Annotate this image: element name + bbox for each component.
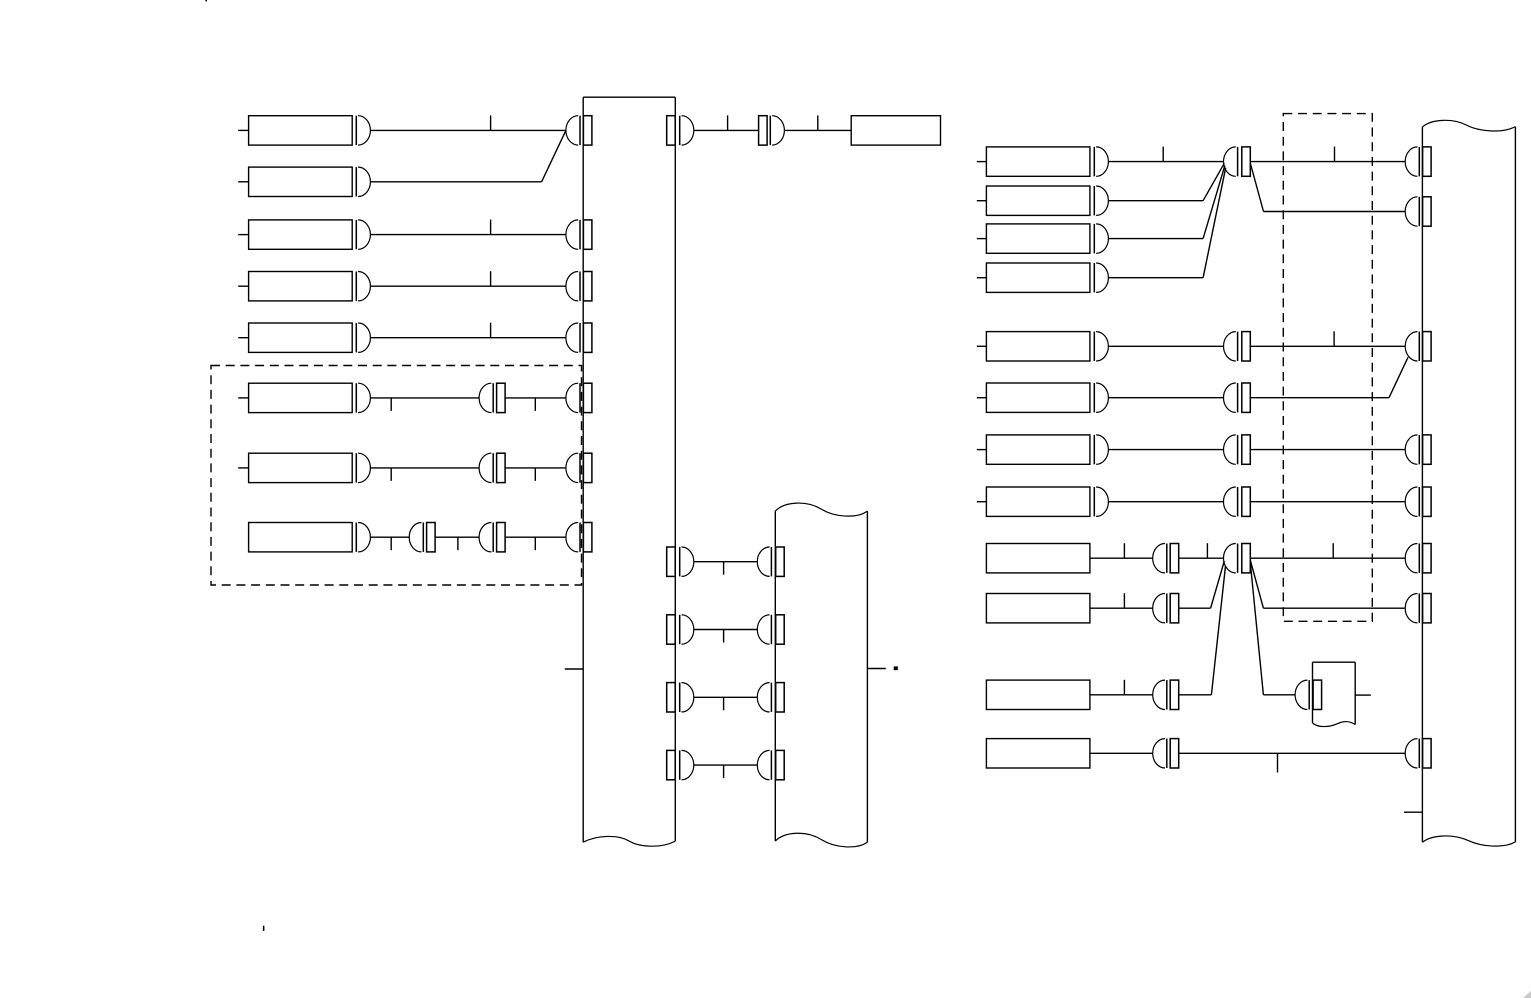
- plug PR5: [1094, 332, 1108, 361]
- wire G3-2a: [1090, 607, 1153, 609]
- wire label tick W6a: [390, 398, 392, 411]
- wire W2 diagonal: [542, 130, 566, 181]
- wire G3-3 merge diagonal: [1211, 566, 1225, 695]
- wire label tick W8b: [457, 537, 459, 550]
- tab J2 pin 2: [776, 615, 785, 644]
- socket J3 pin y161: [1405, 147, 1419, 176]
- plug PR1: [1094, 147, 1108, 176]
- wire label tick G3-1b: [1206, 543, 1208, 558]
- tab J2 pin 4: [776, 750, 785, 779]
- wire G3 out c: [1263, 694, 1295, 696]
- plug PR3: [1094, 224, 1108, 253]
- wire G2-4: [1108, 501, 1223, 503]
- wire G2-3: [1108, 449, 1223, 451]
- plug PR6: [1094, 383, 1108, 412]
- tab J3 pin y501: [1423, 487, 1432, 516]
- tab J3 pin y608: [1423, 594, 1432, 623]
- inline socket X8a: [479, 523, 493, 552]
- plug PR7: [1094, 435, 1108, 464]
- tab J1 pin row y537: [583, 523, 592, 552]
- wire G1-2: [1108, 200, 1203, 202]
- inline tab Y1b: [1242, 332, 1251, 361]
- socket J1 pin row y234: [566, 220, 580, 249]
- wire label tick G3-2a: [1123, 593, 1125, 608]
- inline socket Z1a: [1153, 544, 1167, 573]
- wire label tick W7a: [390, 468, 392, 481]
- plug P1: [356, 116, 370, 145]
- wire G1-1: [1108, 161, 1223, 163]
- wire W1: [370, 129, 566, 131]
- inline tab Y3b: [1242, 435, 1251, 464]
- socket J2 pin 1: [757, 547, 771, 576]
- tab J1 out pin 2: [667, 615, 676, 644]
- wire stub G1 row 1: [977, 161, 987, 163]
- inline tab X9a: [759, 116, 768, 145]
- inline tab X7b: [497, 453, 506, 482]
- terminal box T2: [249, 167, 353, 196]
- tab J1 pin row y130: [583, 116, 592, 145]
- tab J2 pin 3: [776, 683, 785, 712]
- stub on J2 right side: [867, 668, 885, 670]
- plug PR8: [1094, 487, 1108, 516]
- connector box J4 outline: [1313, 662, 1356, 726]
- wire G3 out b diagonal: [1250, 560, 1263, 608]
- crop mark bottom left: [263, 926, 265, 931]
- wire G1 out a: [1250, 161, 1405, 163]
- wire G1 out b: [1264, 211, 1406, 213]
- socket J3 pin y346: [1405, 332, 1419, 361]
- wire G3-1b: [1179, 557, 1224, 559]
- inline tab Z1b: [1170, 544, 1179, 573]
- socket J3 pin y558: [1405, 544, 1419, 573]
- socket J1 pin row y467: [566, 453, 580, 482]
- wire stub G1 row 2: [977, 200, 987, 202]
- wire stub G2 row 2: [977, 397, 987, 399]
- wire label tick G3-1a: [1123, 543, 1125, 558]
- terminal box R1: [986, 147, 1090, 176]
- wire label tick G1-1: [1162, 147, 1164, 162]
- splice socket S1: [1224, 147, 1238, 176]
- terminal box T4: [249, 272, 353, 301]
- plug P7: [356, 453, 370, 482]
- wire label tick W7c: [534, 468, 536, 481]
- wire W8a: [370, 536, 409, 538]
- plug J1 out 2: [680, 615, 694, 644]
- wire stub G1 row 3: [977, 238, 987, 240]
- inline tab Y2b: [1242, 383, 1251, 412]
- tab J1 out pin 1: [667, 547, 676, 576]
- wire label tick G3-4b: [1277, 753, 1279, 772]
- wire G2-1: [1108, 345, 1223, 347]
- wire stub G2 row 1: [977, 345, 987, 347]
- wire G2-2 merge diagonal: [1389, 357, 1408, 397]
- plug P6: [356, 383, 370, 412]
- tab J1 out pin 4: [667, 750, 676, 779]
- wire L1: [694, 561, 758, 563]
- plug J1 out 4: [680, 750, 694, 779]
- tab J1 out pin top: [667, 116, 676, 145]
- wire G2-1 out: [1250, 345, 1405, 347]
- wire G3 out b: [1263, 607, 1405, 609]
- inline socket Y3a: [1224, 435, 1238, 464]
- wire G3-2b: [1179, 607, 1211, 609]
- wire G3-4a: [1090, 752, 1153, 754]
- plug PR4: [1094, 263, 1108, 292]
- inline plug X9b: [770, 116, 784, 145]
- wire label tick W3: [490, 220, 492, 235]
- plug P8: [356, 523, 370, 552]
- plug J1 out 3: [680, 683, 694, 712]
- wire label tick G3-3a: [1123, 680, 1125, 695]
- inline tab X1b: [427, 523, 436, 552]
- wire label tick W9a: [727, 115, 729, 130]
- wire W3: [370, 234, 566, 236]
- wire G2-3 out: [1250, 449, 1405, 451]
- wire W6c: [505, 397, 566, 399]
- tab J1 pin row y234: [583, 220, 592, 249]
- wire G2-2: [1108, 397, 1223, 399]
- terminal box T8: [249, 523, 353, 552]
- splice socket S2: [1224, 544, 1238, 573]
- wire G3-4b: [1179, 752, 1406, 754]
- connector block J3 outline: [1422, 120, 1515, 846]
- wire G1-2 diagonal: [1203, 163, 1224, 200]
- tab J4 pin: [1313, 680, 1322, 709]
- socket J1 pin row y130: [566, 116, 580, 145]
- socket J4 pin: [1295, 680, 1309, 709]
- terminal box T3: [249, 220, 353, 249]
- splice tab S2: [1242, 544, 1251, 573]
- inline socket X1a: [409, 523, 423, 552]
- wire label tick G3 out a: [1332, 543, 1334, 558]
- terminal box R3: [986, 224, 1090, 253]
- terminal box R5: [986, 332, 1090, 361]
- socket J3 pin y608: [1405, 594, 1419, 623]
- socket J3 pin y449: [1405, 435, 1419, 464]
- inline socket Y2a: [1224, 383, 1238, 412]
- plug P3: [356, 220, 370, 249]
- socket J2 pin 3: [757, 683, 771, 712]
- plug P5: [356, 323, 370, 352]
- inline socket Z3a: [1153, 680, 1167, 709]
- wire G3-1a: [1090, 557, 1153, 559]
- wire stub G2 row 3: [977, 449, 987, 451]
- inline socket Z2a: [1153, 594, 1167, 623]
- stub on J4 right side: [1355, 694, 1371, 696]
- wire label tick W4: [490, 271, 492, 286]
- wire W2: [370, 181, 541, 183]
- terminal box T1: [249, 116, 353, 145]
- socket J1 pin row y286: [566, 272, 580, 301]
- inline tab Z2b: [1170, 594, 1179, 623]
- connector block J1 outline: [583, 97, 675, 846]
- plug PR2: [1094, 186, 1108, 215]
- dashed harness group box right: [1283, 114, 1372, 622]
- socket J3 pin y753: [1405, 739, 1419, 768]
- terminal box R7: [986, 435, 1090, 464]
- wire W8b: [435, 536, 479, 538]
- plug P2: [356, 167, 370, 196]
- wire label tick W9b: [817, 115, 819, 130]
- wire G3-3b: [1179, 694, 1212, 696]
- inline tab Y4b: [1242, 487, 1251, 516]
- wire label tick L1: [723, 562, 725, 575]
- wire label tick W8c: [534, 537, 536, 550]
- socket J2 pin 4: [757, 750, 771, 779]
- terminal box T6: [249, 383, 353, 412]
- plug J1 out top: [680, 116, 694, 145]
- wire label tick W1: [490, 115, 492, 130]
- stub on J3 left side: [1404, 811, 1422, 813]
- tab J3 pin y558: [1423, 544, 1432, 573]
- terminal box R10: [986, 594, 1090, 623]
- tab J3 pin y346: [1423, 332, 1432, 361]
- terminal box T9: [851, 116, 940, 145]
- tab J3 pin y753: [1423, 739, 1432, 768]
- tab J1 pin row y397: [583, 383, 592, 412]
- wire label tick L4: [723, 765, 725, 778]
- wire stub row 3: [238, 234, 248, 236]
- inline socket X7a: [479, 453, 493, 482]
- wire L3: [694, 696, 758, 698]
- wire W8c: [505, 536, 566, 538]
- wire G3 out a: [1250, 557, 1405, 559]
- inline socket Y1a: [1224, 332, 1238, 361]
- socket J1 pin row y397: [566, 383, 580, 412]
- wire stub G2 row 4: [977, 501, 987, 503]
- smudge bottom right corner: [1523, 991, 1531, 998]
- wire W7a: [370, 467, 479, 469]
- wire stub row 1: [238, 129, 248, 131]
- stub on J1 left side: [565, 668, 583, 670]
- socket J3 pin y211: [1405, 197, 1419, 226]
- wire L4: [694, 764, 758, 766]
- splice tab S1: [1242, 147, 1251, 176]
- wire G2-2 out: [1250, 397, 1389, 399]
- wire W5: [370, 337, 566, 339]
- wire stub row 4: [238, 285, 248, 287]
- wire G3-2 merge diagonal: [1211, 561, 1225, 608]
- wire label tick G1 out a: [1334, 147, 1336, 162]
- plug J1 out 1: [680, 547, 694, 576]
- wire G1-4: [1108, 277, 1203, 279]
- tab J1 pin row y286: [583, 272, 592, 301]
- wire G1 out b diagonal: [1250, 163, 1263, 211]
- socket J3 pin y501: [1405, 487, 1419, 516]
- plug P4: [356, 272, 370, 301]
- wire stub row 6: [238, 397, 248, 399]
- inline tab Z3b: [1170, 680, 1179, 709]
- wire G2-4 out: [1250, 501, 1405, 503]
- tab J3 pin y161: [1423, 147, 1432, 176]
- wire L2: [694, 629, 758, 631]
- dot node: [894, 666, 898, 670]
- wire W6a: [370, 397, 479, 399]
- terminal box R6: [986, 383, 1090, 412]
- wire label tick W6c: [534, 398, 536, 411]
- inline tab X8b: [497, 523, 506, 552]
- terminal box R4: [986, 263, 1090, 292]
- wire G3 out c diagonal: [1250, 563, 1263, 695]
- wire G1-3: [1108, 238, 1203, 240]
- wire label tick W5: [490, 323, 492, 338]
- wire label tick G2-1 out: [1333, 331, 1335, 346]
- tab J3 pin y211: [1423, 197, 1432, 226]
- terminal box R9: [986, 544, 1090, 573]
- wire stub G1 row 4: [977, 277, 987, 279]
- terminal box T5: [249, 323, 353, 352]
- tab J1 pin row y467: [583, 453, 592, 482]
- terminal box R11: [986, 680, 1090, 709]
- tab J1 out pin 3: [667, 683, 676, 712]
- connector block J2 outline: [775, 503, 867, 847]
- wire W7c: [505, 467, 566, 469]
- tab J1 pin row y337: [583, 323, 592, 352]
- wire label tick W8a: [390, 537, 392, 550]
- socket J2 pin 2: [757, 615, 771, 644]
- tab J2 pin 1: [776, 547, 785, 576]
- socket J1 pin row y337: [566, 323, 580, 352]
- terminal box R8: [986, 487, 1090, 516]
- wire label tick L2: [723, 630, 725, 643]
- dashed harness group box: [211, 366, 582, 586]
- wire W9a: [694, 129, 759, 131]
- wire G1-4 diagonal: [1203, 168, 1226, 278]
- inline socket Z4a: [1153, 739, 1167, 768]
- wire stub row 2: [238, 181, 248, 183]
- wire stub row 5: [238, 337, 248, 339]
- terminal box T7: [249, 453, 353, 482]
- wire stub row 7: [238, 467, 248, 469]
- tab J3 pin y449: [1423, 435, 1432, 464]
- terminal box R12: [986, 739, 1090, 768]
- inline socket Y4a: [1224, 487, 1238, 516]
- wire W9b: [784, 129, 851, 131]
- inline tab X6b: [497, 383, 506, 412]
- wire label tick L3: [723, 697, 725, 710]
- socket J1 pin row y537: [566, 523, 580, 552]
- wire G3-3a: [1090, 694, 1153, 696]
- wire W4: [370, 285, 566, 287]
- crop mark top left: [205, 0, 207, 1]
- terminal box R2: [986, 186, 1090, 215]
- inline tab Z4b: [1170, 739, 1179, 768]
- wire G1-3 diagonal: [1203, 165, 1225, 238]
- inline socket X6a: [479, 383, 493, 412]
